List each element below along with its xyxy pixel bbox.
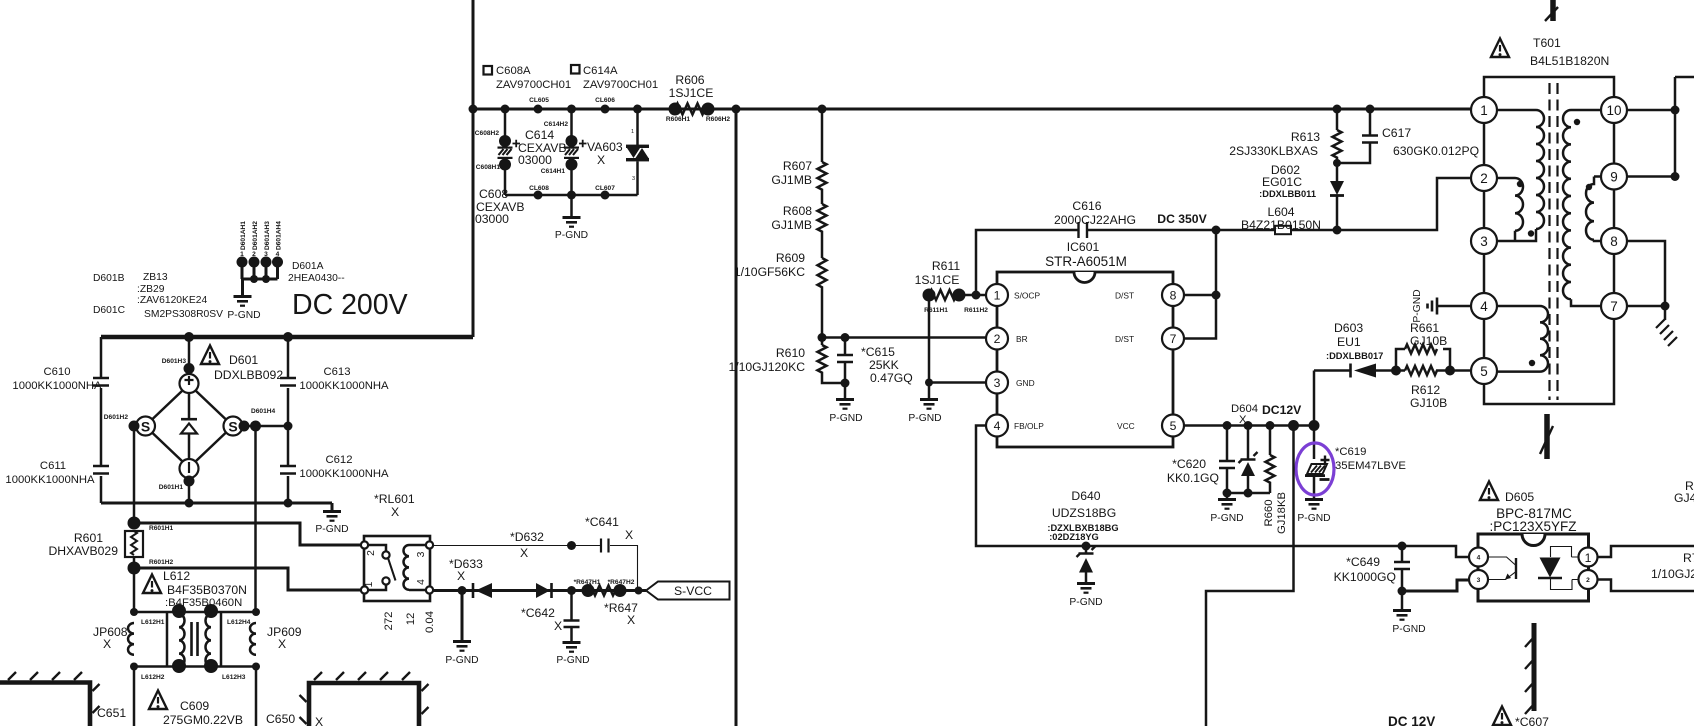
- svg-text:X: X: [278, 637, 286, 651]
- svg-text:KK1000GQ: KK1000GQ: [1334, 570, 1396, 584]
- svg-text:R607: R607: [783, 159, 812, 173]
- svg-text:630GK0.012PQ: 630GK0.012PQ: [1393, 144, 1479, 158]
- svg-text:L612H1: L612H1: [141, 619, 165, 626]
- svg-text:1000KK1000NHA: 1000KK1000NHA: [12, 380, 102, 392]
- svg-text:P-GND: P-GND: [555, 230, 588, 241]
- svg-text:1/10GJ2.2: 1/10GJ2.2: [1651, 567, 1694, 581]
- svg-text:4: 4: [276, 251, 280, 258]
- svg-text:D601AH4: D601AH4: [276, 221, 283, 250]
- svg-text:2HEA0430--: 2HEA0430--: [288, 273, 345, 284]
- svg-text:8: 8: [1610, 234, 1618, 249]
- svg-text:D601A: D601A: [292, 261, 324, 272]
- svg-text:1/10GJ120KC: 1/10GJ120KC: [728, 360, 805, 374]
- svg-text:1SJ1CE: 1SJ1CE: [669, 86, 714, 100]
- svg-text:X: X: [554, 619, 562, 633]
- svg-text:S/OCP: S/OCP: [1014, 291, 1040, 301]
- svg-text:*C615: *C615: [861, 345, 895, 359]
- svg-text:B4F35B0370N: B4F35B0370N: [167, 583, 247, 597]
- svg-text:R601: R601: [74, 531, 103, 545]
- svg-text:L604: L604: [1267, 205, 1294, 219]
- svg-text::PC123X5YFZ: :PC123X5YFZ: [1489, 519, 1576, 534]
- svg-text::DDXLBB011: :DDXLBB011: [1259, 189, 1316, 199]
- svg-text:CL606: CL606: [595, 97, 615, 104]
- svg-text:C608H1: C608H1: [476, 164, 501, 171]
- svg-text:R661: R661: [1410, 321, 1439, 335]
- svg-text::ZB29: :ZB29: [137, 284, 165, 295]
- svg-text:1: 1: [994, 289, 1001, 303]
- svg-text:2: 2: [366, 550, 377, 556]
- svg-text:1000KK1000NHA: 1000KK1000NHA: [5, 474, 95, 486]
- svg-text:R613: R613: [1291, 130, 1320, 144]
- svg-text:03000: 03000: [518, 153, 552, 167]
- svg-text:L612H3: L612H3: [222, 674, 246, 681]
- svg-text:X: X: [391, 505, 399, 519]
- svg-text:R660: R660: [1263, 499, 1275, 526]
- svg-text:DC 12V: DC 12V: [1388, 714, 1435, 726]
- svg-text:D640: D640: [1071, 489, 1100, 503]
- svg-text:D601H1: D601H1: [159, 484, 184, 491]
- svg-text:FB/OLP: FB/OLP: [1014, 421, 1044, 431]
- svg-text:C616: C616: [1072, 199, 1101, 213]
- svg-text:*C649: *C649: [1346, 555, 1380, 569]
- svg-text:R601H1: R601H1: [149, 525, 174, 532]
- svg-text:X: X: [315, 715, 323, 726]
- svg-text::DDXLBB017: :DDXLBB017: [1326, 351, 1383, 361]
- svg-text:7: 7: [1170, 332, 1177, 346]
- svg-text:B4Z21B0150N: B4Z21B0150N: [1241, 218, 1321, 232]
- svg-text:P-GND: P-GND: [1210, 513, 1243, 524]
- svg-text:1: 1: [631, 129, 634, 135]
- svg-text:GJ18KB: GJ18KB: [1276, 492, 1288, 534]
- svg-text:VCC: VCC: [1117, 421, 1135, 431]
- svg-text:D/ST: D/ST: [1115, 334, 1134, 344]
- svg-text:X: X: [457, 569, 465, 583]
- svg-text:C617: C617: [1382, 126, 1411, 140]
- svg-text:12: 12: [405, 613, 417, 626]
- svg-text:R601H2: R601H2: [149, 559, 174, 566]
- svg-text:1: 1: [1480, 103, 1488, 118]
- svg-text:C614H1: C614H1: [541, 168, 566, 175]
- svg-text:DC 350V: DC 350V: [1157, 212, 1207, 226]
- svg-text:D601: D601: [229, 353, 258, 367]
- svg-text:DHXAVB029: DHXAVB029: [48, 544, 118, 558]
- svg-text:KK0.1GQ: KK0.1GQ: [1167, 471, 1219, 485]
- svg-text:DDXLBB092: DDXLBB092: [214, 368, 283, 382]
- svg-text:C611: C611: [40, 460, 66, 472]
- svg-text:*C620: *C620: [1172, 457, 1206, 471]
- svg-text:DC12V: DC12V: [1262, 403, 1302, 417]
- svg-text:C651: C651: [97, 706, 126, 720]
- svg-text:3: 3: [1477, 577, 1481, 584]
- svg-text:C612: C612: [325, 454, 352, 466]
- svg-text:EU1: EU1: [1337, 335, 1361, 349]
- svg-text:CL605: CL605: [529, 97, 549, 104]
- svg-text:GJ1MB: GJ1MB: [771, 218, 812, 232]
- svg-text:7: 7: [1610, 299, 1618, 314]
- svg-text:SM2PS308R0SV: SM2PS308R0SV: [144, 309, 223, 320]
- svg-text:272: 272: [383, 612, 395, 631]
- svg-text:UDZS18BG: UDZS18BG: [1052, 506, 1116, 520]
- svg-text:D605: D605: [1505, 490, 1534, 504]
- svg-text:3: 3: [1480, 234, 1488, 249]
- svg-text:VA603: VA603: [587, 140, 623, 154]
- svg-text:0.47GQ: 0.47GQ: [870, 371, 913, 385]
- svg-text:S-VCC: S-VCC: [674, 584, 712, 598]
- svg-text:25KK: 25KK: [869, 358, 899, 372]
- svg-text:P-GND: P-GND: [1069, 597, 1102, 608]
- svg-text:*R647H2: *R647H2: [608, 579, 635, 586]
- svg-text:*C619: *C619: [1335, 446, 1366, 458]
- svg-text:2: 2: [252, 251, 256, 258]
- svg-text:4: 4: [416, 579, 427, 585]
- svg-text:GJ1MB: GJ1MB: [771, 173, 812, 187]
- svg-text:L612H2: L612H2: [141, 674, 165, 681]
- svg-text:R606H2: R606H2: [706, 116, 731, 123]
- svg-text:D/ST: D/ST: [1115, 291, 1134, 301]
- svg-text:5: 5: [1480, 364, 1488, 379]
- svg-text:C650: C650: [266, 712, 295, 726]
- svg-text:C608: C608: [479, 187, 508, 201]
- svg-text:GJ10B: GJ10B: [1410, 396, 1447, 410]
- svg-text:4: 4: [1477, 555, 1481, 562]
- svg-text:*C642: *C642: [521, 606, 555, 620]
- svg-text:1: 1: [364, 581, 375, 587]
- svg-text:R611H1: R611H1: [924, 307, 948, 314]
- svg-text:P-GND: P-GND: [829, 413, 862, 424]
- svg-text:9: 9: [1610, 170, 1618, 185]
- svg-text:5: 5: [1170, 419, 1177, 433]
- svg-text:1: 1: [240, 251, 244, 258]
- svg-text:R606: R606: [675, 73, 704, 87]
- svg-text:ZAV9700CH01: ZAV9700CH01: [496, 79, 571, 91]
- svg-text:2000CJ22AHG: 2000CJ22AHG: [1054, 213, 1136, 227]
- svg-text:L612H4: L612H4: [227, 619, 251, 626]
- svg-text:STR-A6051M: STR-A6051M: [1045, 254, 1127, 269]
- svg-text:EG01C: EG01C: [1262, 175, 1302, 189]
- svg-text:2: 2: [1480, 171, 1488, 186]
- svg-text:2: 2: [994, 332, 1001, 346]
- svg-text:35EM47LBVE: 35EM47LBVE: [1335, 460, 1406, 472]
- svg-text:C610: C610: [43, 366, 70, 378]
- svg-text:X: X: [625, 528, 633, 542]
- svg-text:10: 10: [1606, 103, 1621, 118]
- svg-text:R609: R609: [776, 251, 805, 265]
- svg-text:*D632: *D632: [510, 530, 544, 544]
- svg-text:3: 3: [632, 176, 635, 182]
- svg-text:C614: C614: [525, 128, 554, 142]
- svg-text:R610: R610: [776, 346, 805, 360]
- svg-text:GND: GND: [1016, 378, 1035, 388]
- svg-text:R611H2: R611H2: [964, 307, 988, 314]
- svg-text:X: X: [1239, 414, 1247, 426]
- svg-text:3: 3: [994, 376, 1001, 390]
- svg-text:P-GND: P-GND: [556, 655, 589, 666]
- svg-text:R611: R611: [932, 259, 960, 273]
- svg-text:D601AH1: D601AH1: [240, 221, 247, 250]
- svg-text:275GM0.22VB: 275GM0.22VB: [163, 713, 243, 726]
- svg-text:4: 4: [994, 419, 1001, 433]
- svg-text:*C607: *C607: [1515, 715, 1549, 726]
- svg-text:D601C: D601C: [93, 305, 126, 316]
- svg-text:D601H4: D601H4: [251, 408, 276, 415]
- svg-text:1SJ1CE: 1SJ1CE: [915, 273, 960, 287]
- svg-text:D601H2: D601H2: [104, 414, 129, 421]
- svg-text:P-GND: P-GND: [1412, 289, 1423, 322]
- svg-text:C613: C613: [323, 366, 350, 378]
- svg-text:P-GND: P-GND: [1297, 513, 1330, 524]
- svg-text:1000KK1000NHA: 1000KK1000NHA: [299, 468, 389, 480]
- svg-text:1/10GF56KC: 1/10GF56KC: [734, 265, 805, 279]
- svg-text:*D633: *D633: [449, 557, 483, 571]
- svg-text:0.04: 0.04: [424, 611, 436, 633]
- svg-text:GJ47: GJ47: [1674, 491, 1694, 505]
- svg-text:D601H3: D601H3: [162, 358, 187, 365]
- svg-text::02DZ18YG: :02DZ18YG: [1049, 532, 1099, 542]
- svg-text:X: X: [103, 637, 111, 651]
- svg-text:R608: R608: [783, 204, 812, 218]
- svg-text:*C641: *C641: [585, 515, 619, 529]
- svg-text:C614A: C614A: [583, 65, 618, 77]
- svg-text:P-GND: P-GND: [908, 413, 941, 424]
- svg-text:C614H2: C614H2: [544, 121, 569, 128]
- svg-text:X: X: [597, 153, 605, 167]
- svg-text:03000: 03000: [475, 212, 509, 226]
- svg-text:P-GND: P-GND: [227, 310, 260, 321]
- svg-text::ZAV6120KE24: :ZAV6120KE24: [137, 295, 207, 306]
- svg-text:P-GND: P-GND: [445, 655, 478, 666]
- svg-text:*R647H1: *R647H1: [574, 579, 601, 586]
- svg-text:BR: BR: [1016, 334, 1028, 344]
- svg-text:3: 3: [264, 251, 268, 258]
- svg-text:4: 4: [1480, 299, 1488, 314]
- svg-text:ZB13: ZB13: [143, 272, 168, 283]
- svg-text:B4L51B1820N: B4L51B1820N: [1530, 54, 1609, 68]
- svg-text:C608H2: C608H2: [475, 130, 500, 137]
- svg-text:D601AH3: D601AH3: [264, 221, 271, 250]
- svg-text:L612: L612: [163, 569, 190, 583]
- svg-text:X: X: [520, 546, 528, 560]
- svg-text:S: S: [141, 419, 150, 435]
- svg-text:1000KK1000NHA: 1000KK1000NHA: [299, 380, 389, 392]
- svg-text:2: 2: [1586, 577, 1590, 584]
- svg-text:R612: R612: [1411, 383, 1440, 397]
- svg-text:T601: T601: [1533, 36, 1561, 50]
- svg-text::B4F35B0460N: :B4F35B0460N: [165, 597, 242, 609]
- svg-text:D601B: D601B: [93, 273, 125, 284]
- svg-text:C609: C609: [180, 699, 209, 713]
- svg-text:CL607: CL607: [595, 185, 615, 192]
- svg-text:3: 3: [416, 551, 427, 557]
- svg-text:X: X: [627, 613, 635, 627]
- svg-text:P-GND: P-GND: [315, 524, 348, 535]
- svg-text:IC601: IC601: [1067, 240, 1100, 254]
- svg-text:C608A: C608A: [496, 65, 531, 77]
- svg-text:R7: R7: [1683, 551, 1694, 565]
- svg-text:R606H1: R606H1: [666, 116, 691, 123]
- svg-text:*RL601: *RL601: [374, 492, 415, 506]
- svg-text:P-GND: P-GND: [1392, 624, 1425, 635]
- svg-text:S: S: [228, 419, 237, 435]
- svg-text:CL608: CL608: [529, 185, 549, 192]
- svg-text:DC 200V: DC 200V: [292, 289, 408, 321]
- svg-text:1: 1: [1585, 551, 1592, 565]
- svg-text:8: 8: [1170, 289, 1177, 303]
- svg-text:ZAV9700CH01: ZAV9700CH01: [583, 79, 658, 91]
- svg-text:D603: D603: [1334, 321, 1363, 335]
- svg-text:GJ10B: GJ10B: [1410, 334, 1447, 348]
- svg-text:D601AH2: D601AH2: [252, 221, 259, 250]
- svg-text:2SJ330KLBXAS: 2SJ330KLBXAS: [1229, 144, 1318, 158]
